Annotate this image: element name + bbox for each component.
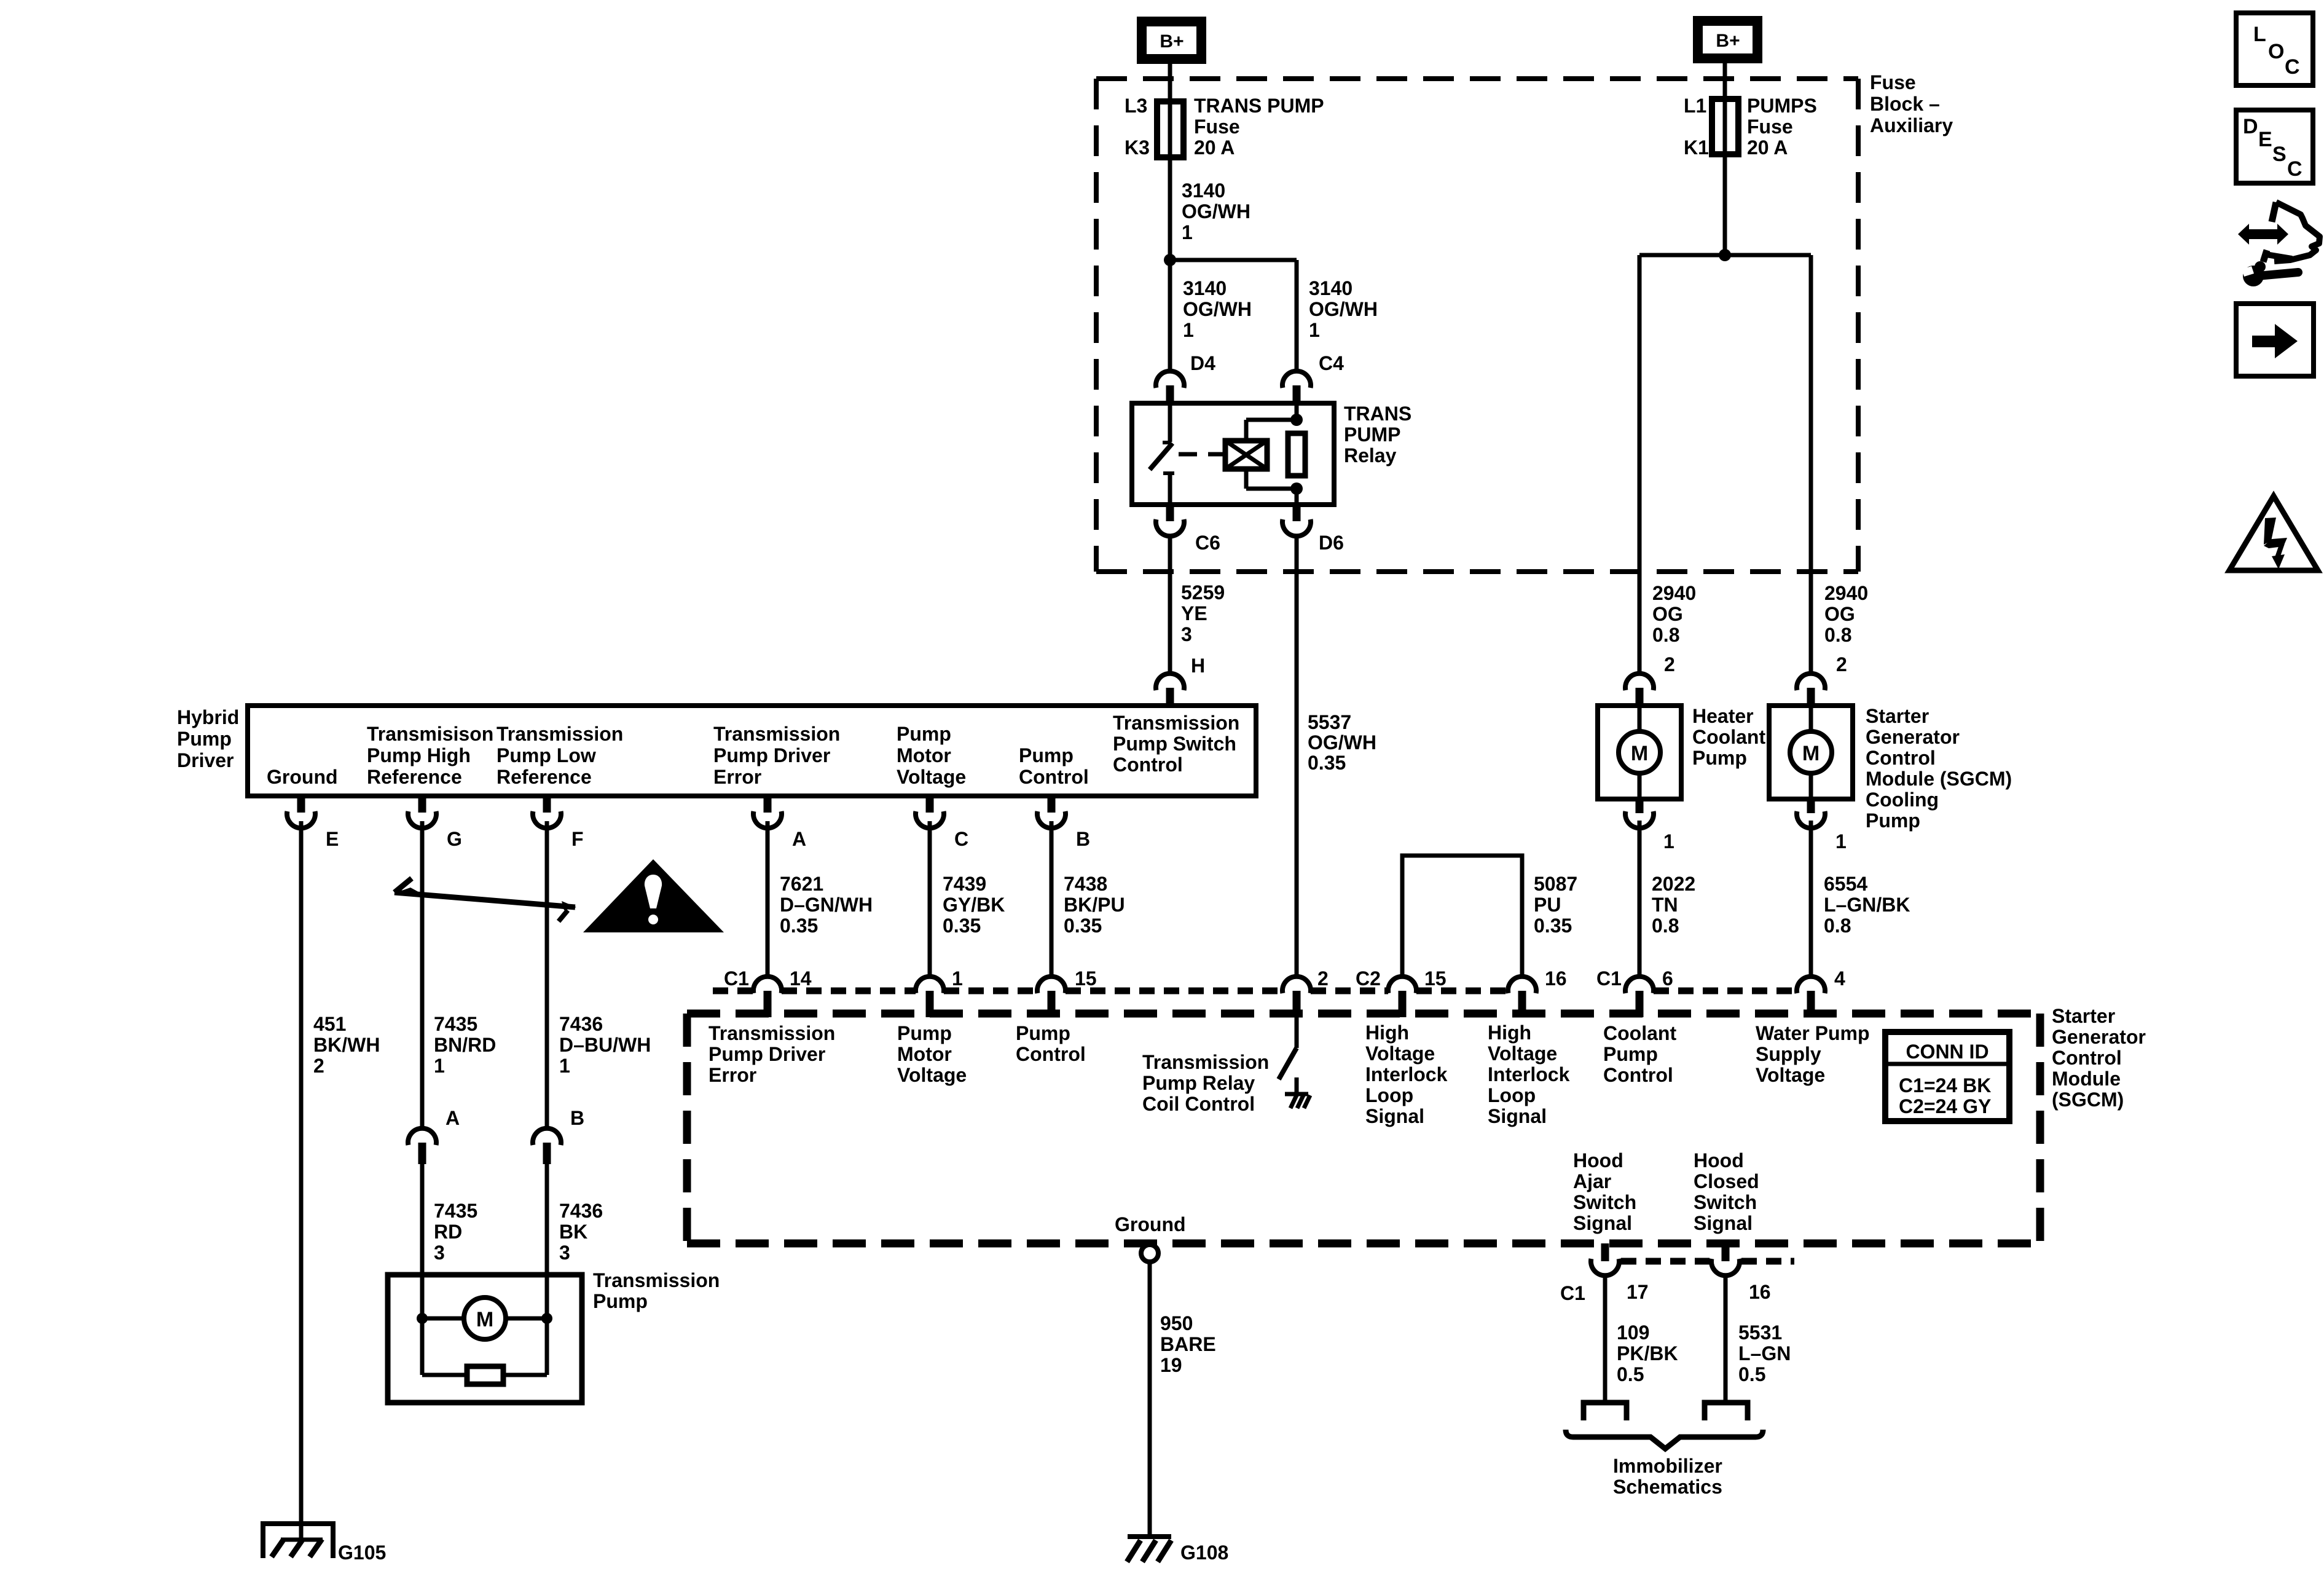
svg-text:Supply: Supply [1756,1043,1821,1065]
svg-text:GY/BK: GY/BK [943,894,1005,916]
svg-text:Pump: Pump [897,1022,952,1044]
inline connector A [408,1128,436,1145]
SGCM cooling pump pin 1 [1807,799,1815,813]
off-page terminator (pin 16 wire) [1705,1403,1748,1420]
svg-text:G: G [447,828,462,850]
svg-text:Voltage: Voltage [1756,1064,1825,1086]
annotation arrow (points left across wires) [395,892,575,907]
svg-text:Reference: Reference [367,766,462,788]
wire branch 2940 [1639,253,1811,258]
pump internal resistor [467,1366,503,1384]
svg-text:0.8: 0.8 [1824,915,1851,937]
hybrid pump driver pin C [926,796,934,813]
svg-text:M: M [1802,742,1820,765]
svg-text:2: 2 [1836,653,1847,675]
svg-text:7439: 7439 [943,873,986,895]
SGCM hood pin 16 connector [1722,1243,1730,1261]
svg-text:PK/BK: PK/BK [1617,1342,1678,1364]
connector C1/C2 thin dashed line [713,988,753,994]
svg-text:17: 17 [1627,1281,1649,1303]
wire 5531 L-GN [1724,1275,1728,1401]
svg-text:Heater: Heater [1692,705,1754,727]
svg-text:Block –: Block – [1870,93,1940,115]
svg-text:G105: G105 [338,1542,386,1564]
svg-text:F: F [571,828,584,850]
svg-text:20 A: 20 A [1747,136,1788,159]
svg-text:Pump Driver: Pump Driver [709,1043,825,1065]
svg-text:Signal: Signal [1573,1212,1632,1234]
svg-text:Error: Error [713,766,761,788]
svg-text:Signal: Signal [1694,1212,1753,1234]
svg-text:K3: K3 [1125,136,1150,159]
svg-text:Signal: Signal [1365,1105,1424,1127]
svg-text:0.5: 0.5 [1738,1363,1765,1385]
svg-text:Coil Control: Coil Control [1142,1093,1255,1115]
connector arc pin 2 [1797,674,1825,690]
svg-text:Motor: Motor [897,744,951,766]
svg-text:OG/WH: OG/WH [1308,731,1376,754]
svg-text:BN/RD: BN/RD [434,1034,496,1056]
svg-text:Closed: Closed [1694,1170,1759,1192]
svg-text:6554: 6554 [1824,873,1867,895]
svg-text:PU: PU [1534,894,1561,916]
svg-text:D: D [2243,115,2258,138]
svg-text:Hood: Hood [1694,1149,1744,1171]
svg-text:YE: YE [1181,602,1207,624]
svg-text:(SGCM): (SGCM) [2052,1089,2124,1111]
brace to immobilizer schematics [1566,1430,1763,1449]
svg-text:Ground: Ground [267,766,338,788]
wire B+ to TRANS PUMP fuse and junction [1168,64,1172,260]
hybrid pump driver pin E [297,796,305,813]
svg-text:C1=24 BK: C1=24 BK [1899,1074,1991,1097]
svg-text:Transmission: Transmission [497,723,623,745]
svg-text:3: 3 [559,1242,570,1264]
hybrid pump driver pin F [543,796,551,813]
svg-text:Pump: Pump [897,723,951,745]
wire 950 BARE to G108 [1148,1262,1152,1537]
svg-text:1: 1 [434,1055,445,1077]
svg-text:Relay: Relay [1344,444,1397,467]
motor symbol M2 [1790,731,1832,773]
svg-text:OG/WH: OG/WH [1182,200,1250,222]
svg-text:4: 4 [1834,967,1845,990]
icon electrical warning triangle [2229,496,2318,570]
svg-text:2: 2 [1317,967,1329,990]
svg-text:High: High [1488,1022,1531,1044]
svg-text:BARE: BARE [1160,1333,1216,1355]
svg-text:Loop: Loop [1365,1084,1413,1106]
svg-text:Voltage: Voltage [897,766,966,788]
coil top lead [1244,420,1249,441]
svg-text:Pump: Pump [1016,1022,1070,1044]
SGCM pin C2-15 connector [1388,977,1416,993]
svg-text:950: 950 [1160,1312,1193,1334]
starter generator control module dashed border [687,1010,2040,1018]
off-page terminator (pin 17 wire) [1584,1403,1627,1420]
svg-text:0.8: 0.8 [1652,915,1679,937]
svg-text:TRANS PUMP: TRANS PUMP [1194,95,1324,117]
svg-text:Reference: Reference [497,766,592,788]
svg-text:CONN ID: CONN ID [1906,1041,1988,1063]
SGCM ground pin ring terminal [1141,1245,1158,1262]
SGCM pin 15 connector [1037,977,1066,993]
wire 3140 down to relay C4 [1295,260,1299,371]
svg-text:7436: 7436 [559,1013,603,1035]
relay pin C6 [1166,505,1174,521]
wire 2022 TN [1638,821,1642,978]
svg-text:109: 109 [1617,1321,1649,1344]
svg-text:E: E [2258,128,2272,151]
svg-text:D–BU/WH: D–BU/WH [559,1034,651,1056]
svg-text:1: 1 [952,967,963,990]
svg-text:Module (SGCM): Module (SGCM) [1866,768,2012,790]
svg-text:M: M [1631,742,1648,765]
svg-text:7436: 7436 [559,1200,603,1222]
svg-text:OG/WH: OG/WH [1183,298,1252,320]
svg-text:Auxiliary: Auxiliary [1870,114,1953,136]
svg-text:O: O [2268,40,2284,63]
relay switch contact (upper) [1168,403,1172,442]
svg-text:B+: B+ [1716,31,1740,51]
svg-text:Transmission: Transmission [1142,1051,1269,1073]
svg-text:16: 16 [1749,1281,1771,1303]
svg-text:Pump Driver: Pump Driver [713,744,830,766]
SGCM internal ground symbol [1285,1092,1308,1097]
junction relay bottom rail [1290,482,1303,495]
svg-text:L–GN/BK: L–GN/BK [1824,894,1910,916]
svg-text:1: 1 [559,1055,570,1077]
junction node left [417,1313,428,1324]
svg-text:C1: C1 [1560,1282,1585,1304]
svg-text:Schematics: Schematics [1613,1476,1722,1498]
svg-text:5537: 5537 [1308,711,1351,733]
svg-text:Pump Relay: Pump Relay [1142,1072,1255,1094]
svg-text:Pump High: Pump High [367,744,471,766]
hybrid pump driver pin G [418,796,426,813]
svg-text:BK/PU: BK/PU [1064,894,1125,916]
svg-text:0.8: 0.8 [1824,624,1851,646]
svg-text:C4: C4 [1319,352,1344,374]
fuse block auxiliary dashed border [1096,76,1858,81]
svg-text:Motor: Motor [897,1043,952,1065]
svg-text:0.8: 0.8 [1652,624,1679,646]
svg-text:Cooling: Cooling [1866,789,1939,811]
icon DESC box [2236,110,2313,183]
svg-text:5087: 5087 [1534,873,1577,895]
battery feed B+ symbol 2 [1693,16,1762,63]
svg-text:OG/WH: OG/WH [1309,298,1378,320]
svg-text:Fuse: Fuse [1194,116,1240,138]
svg-text:G108: G108 [1180,1542,1228,1564]
battery feed B+ symbol 1 [1137,17,1206,64]
svg-text:RD: RD [434,1221,462,1243]
fuse F1 TRANS PUMP 20A [1157,101,1184,157]
svg-text:A: A [792,828,806,850]
junction relay top rail [1290,414,1303,426]
relay pin D6 [1293,505,1301,521]
svg-text:7621: 7621 [780,873,823,895]
svg-text:Control: Control [1603,1064,1673,1086]
svg-text:Control: Control [1113,754,1183,776]
wire 451 BK/WH to G105 [299,821,304,1537]
wire 7438 BK/PU [1050,821,1054,977]
SGCM pin 4 connector [1797,977,1825,993]
svg-text:Transmission: Transmission [1113,712,1239,734]
svg-text:20 A: 20 A [1194,136,1235,159]
coil bottom lead [1244,469,1249,489]
svg-text:Voltage: Voltage [1488,1042,1557,1065]
svg-text:0.35: 0.35 [1064,915,1102,937]
svg-text:Switch: Switch [1573,1191,1636,1213]
svg-text:1: 1 [1182,221,1193,243]
connector arc pin 2 [1625,674,1654,690]
svg-text:1: 1 [1183,319,1194,341]
connector arc C4 [1282,371,1311,388]
svg-text:Pump Switch: Pump Switch [1113,733,1236,755]
svg-text:Voltage: Voltage [897,1064,967,1086]
svg-text:L–GN: L–GN [1738,1342,1791,1364]
svg-text:Control: Control [2052,1047,2122,1069]
svg-text:5531: 5531 [1738,1321,1782,1344]
warning triangle symbol [583,859,724,932]
svg-text:OG: OG [1824,603,1855,625]
relay coil (crossed box) [1225,441,1267,469]
svg-text:High: High [1365,1022,1409,1044]
svg-text:15: 15 [1424,967,1447,990]
SGCM cooling pump M2 box [1769,706,1853,799]
wire 2940 to heater coolant pump [1638,255,1642,674]
hybrid pump driver pin B [1048,796,1056,813]
transmission pump M3 box [388,1275,582,1403]
svg-text:Voltage: Voltage [1365,1042,1435,1065]
svg-text:Hood: Hood [1573,1149,1623,1171]
connector arc D4 [1156,371,1184,388]
junction node splice 3140 [1164,254,1176,266]
svg-text:K1: K1 [1684,136,1709,159]
svg-text:L3: L3 [1125,95,1147,117]
svg-text:C6: C6 [1195,532,1220,554]
svg-text:C1: C1 [1596,967,1622,990]
svg-text:Pump Low: Pump Low [497,744,596,766]
connector C1 thin dashed line (bottom) [1621,1258,1710,1265]
svg-text:Switch: Switch [1694,1191,1757,1213]
wire 7436 D-BU/WH [545,821,549,1128]
svg-text:L1: L1 [1684,95,1706,117]
icon remove/replace (arrow + outline + wrench) [2238,224,2288,245]
svg-text:Error: Error [709,1064,756,1086]
wire 109 PK/BK [1603,1275,1608,1401]
SGCM hood pin 17 connector [1601,1243,1609,1261]
svg-text:Ajar: Ajar [1573,1170,1611,1192]
svg-text:PUMPS: PUMPS [1747,95,1817,117]
svg-text:2940: 2940 [1824,582,1868,604]
inline connector B [533,1128,561,1145]
motor symbol M3 [464,1297,506,1339]
svg-text:Hybrid: Hybrid [177,706,239,728]
wire 7436 BK to transmission pump [545,1164,549,1275]
CONN ID table [1885,1032,2009,1121]
wire 3140 down to relay D4 [1168,260,1172,371]
svg-text:Coolant: Coolant [1692,726,1765,748]
svg-text:M: M [476,1308,493,1331]
wire 5537 OG/WH from relay D6 to SGCM pin 2 [1295,536,1299,977]
ground G105 [263,1524,333,1558]
svg-text:6: 6 [1662,967,1673,990]
svg-text:Fuse: Fuse [1870,71,1916,93]
relay switch blade [1150,443,1172,470]
junction node right [541,1313,552,1324]
hybrid pump driver pin A [764,796,772,813]
connector arc pin H [1156,674,1184,690]
svg-text:0.35: 0.35 [943,915,981,937]
wire 7621 D-GN/WH [766,821,770,977]
svg-text:14: 14 [790,967,812,990]
svg-text:1: 1 [1835,830,1847,853]
svg-text:1: 1 [1309,319,1320,341]
svg-text:B+: B+ [1160,31,1184,52]
heater coolant pump pin 1 [1636,799,1644,813]
svg-text:B: B [570,1107,584,1129]
svg-text:Generator: Generator [2052,1026,2146,1048]
wire 7439 GY/BK [928,821,932,977]
svg-text:TRANS: TRANS [1344,403,1411,425]
svg-text:BK: BK [559,1221,587,1243]
SGCM pin 2 connector [1282,977,1311,993]
wire B+ to PUMPS fuse and junction [1723,63,1727,255]
SGCM internal driver switch [1295,1017,1299,1048]
svg-text:D–GN/WH: D–GN/WH [780,894,873,916]
icon forward arrow box [2236,304,2314,376]
svg-text:Pump: Pump [593,1290,648,1312]
svg-text:1: 1 [1663,830,1674,853]
svg-text:C: C [2285,55,2300,79]
svg-text:Transmission: Transmission [713,723,840,745]
fuse F2 PUMPS 20A [1712,99,1738,154]
wire 7435 BN/RD [420,821,425,1128]
relay resistor [1288,433,1305,476]
svg-text:Pump: Pump [1692,747,1747,769]
svg-text:C1: C1 [724,967,749,990]
svg-text:2: 2 [1664,653,1675,675]
svg-text:451: 451 [313,1013,346,1035]
svg-text:Interlock: Interlock [1365,1063,1448,1085]
hybrid pump driver U1 box [248,706,1256,796]
SGCM pin 14 connector [753,977,782,993]
svg-text:7435: 7435 [434,1200,477,1222]
SGCM pin 6 connector [1625,977,1654,993]
svg-text:D4: D4 [1190,352,1215,374]
svg-text:Control: Control [1866,747,1936,769]
svg-text:7435: 7435 [434,1013,477,1035]
svg-text:0.35: 0.35 [780,915,818,937]
wire 7435 RD to transmission pump [420,1164,425,1275]
relay right pin bottom lead [1295,489,1299,505]
svg-text:C: C [2287,157,2302,181]
svg-text:C: C [954,828,968,850]
svg-text:2: 2 [313,1055,324,1077]
wire branch to relay coil side [1170,258,1297,262]
wire 6554 L-GN/BK [1809,821,1813,978]
svg-text:0.5: 0.5 [1617,1363,1644,1385]
svg-text:Immobilizer: Immobilizer [1613,1455,1722,1477]
SGCM pin 16 connector [1508,977,1536,993]
svg-text:C2: C2 [1356,967,1381,990]
svg-text:0.35: 0.35 [1534,915,1572,937]
svg-text:16: 16 [1545,967,1567,990]
svg-text:5259: 5259 [1181,581,1225,604]
svg-text:Transmission: Transmission [593,1269,720,1291]
svg-text:7438: 7438 [1064,873,1107,895]
svg-text:Interlock: Interlock [1488,1063,1570,1085]
svg-text:Transmission: Transmission [709,1022,835,1044]
svg-text:2022: 2022 [1652,873,1695,895]
svg-text:3140: 3140 [1309,277,1352,299]
wire 2940 to SGCM cooling pump [1809,255,1813,674]
svg-text:H: H [1191,655,1205,677]
svg-text:Coolant: Coolant [1603,1022,1676,1044]
svg-text:Module: Module [2052,1068,2121,1090]
ground G108 [1128,1534,1171,1539]
svg-text:Fuse: Fuse [1747,116,1793,138]
svg-text:Starter: Starter [1866,705,1929,727]
relay bottom rail [1246,487,1297,491]
relay right pin top lead [1295,403,1299,420]
svg-text:PUMP: PUMP [1344,423,1400,446]
svg-text:Starter: Starter [2052,1005,2115,1027]
svg-text:Pump: Pump [1866,809,1920,832]
svg-text:Ground: Ground [1115,1213,1186,1235]
svg-text:E: E [326,828,339,850]
svg-text:C2=24 GY: C2=24 GY [1899,1095,1991,1117]
wire 5259 YE from relay C6 to hybrid pump driver H [1168,536,1172,674]
svg-text:19: 19 [1160,1354,1182,1376]
svg-text:Generator: Generator [1866,726,1960,748]
svg-text:L: L [2253,23,2266,46]
relay actuator dashed link [1179,452,1224,457]
svg-text:Pump: Pump [1603,1043,1658,1065]
relay K1 TRANS PUMP Relay box [1132,403,1334,505]
pump internal bottom rail [422,1373,547,1377]
motor symbol M1 [1619,731,1660,773]
svg-text:BK/WH: BK/WH [313,1034,380,1056]
svg-text:Driver: Driver [177,749,234,771]
svg-text:Signal: Signal [1488,1105,1547,1127]
svg-text:D6: D6 [1319,532,1344,554]
svg-text:3: 3 [434,1242,445,1264]
svg-text:0.35: 0.35 [1308,752,1346,774]
HVIL loop wire 5087 [1402,856,1522,977]
svg-text:Loop: Loop [1488,1084,1536,1106]
svg-text:A: A [446,1107,460,1129]
svg-text:Control: Control [1016,1043,1086,1065]
svg-text:Control: Control [1019,766,1089,788]
svg-text:S: S [2272,143,2287,166]
svg-text:15: 15 [1075,967,1097,990]
heater coolant pump M1 box [1598,706,1681,799]
relay top rail [1246,418,1297,422]
svg-text:3140: 3140 [1183,277,1227,299]
icon LOC box [2236,13,2313,85]
svg-text:OG: OG [1652,603,1683,625]
relay switch contact (lower) [1163,471,1174,475]
svg-text:Pump: Pump [177,728,232,750]
junction node splice 2940 [1719,249,1731,261]
svg-text:Pump: Pump [1019,744,1074,766]
svg-text:TN: TN [1652,894,1678,916]
svg-text:Water Pump: Water Pump [1756,1022,1870,1044]
svg-text:Transmisison: Transmisison [367,723,493,745]
